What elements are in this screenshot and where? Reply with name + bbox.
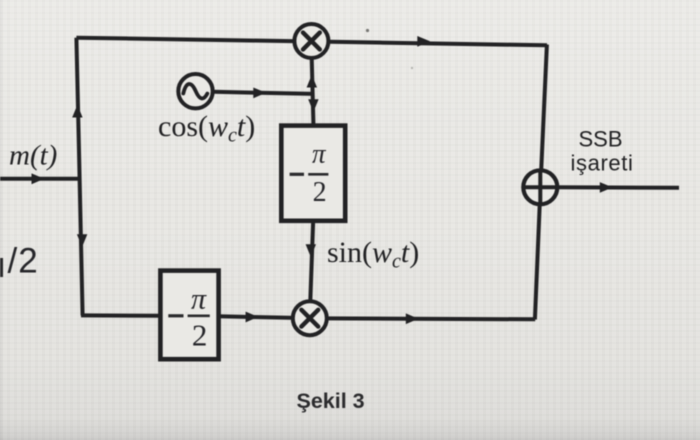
svg-text:m(t): m(t): [9, 139, 57, 171]
svg-text:2: 2: [313, 177, 327, 208]
svg-text:cos(wct): cos(wct): [158, 110, 255, 147]
svg-text:işareti: işareti: [571, 151, 634, 176]
svg-text:Şekil 3: Şekil 3: [297, 389, 365, 413]
svg-text:2: 2: [192, 317, 208, 352]
svg-text:sin(wct): sin(wct): [327, 236, 419, 273]
svg-text:π: π: [312, 139, 327, 169]
svg-text:SSB: SSB: [578, 127, 622, 152]
svg-text:π: π: [191, 283, 207, 316]
svg-text:/2: /2: [8, 242, 39, 281]
